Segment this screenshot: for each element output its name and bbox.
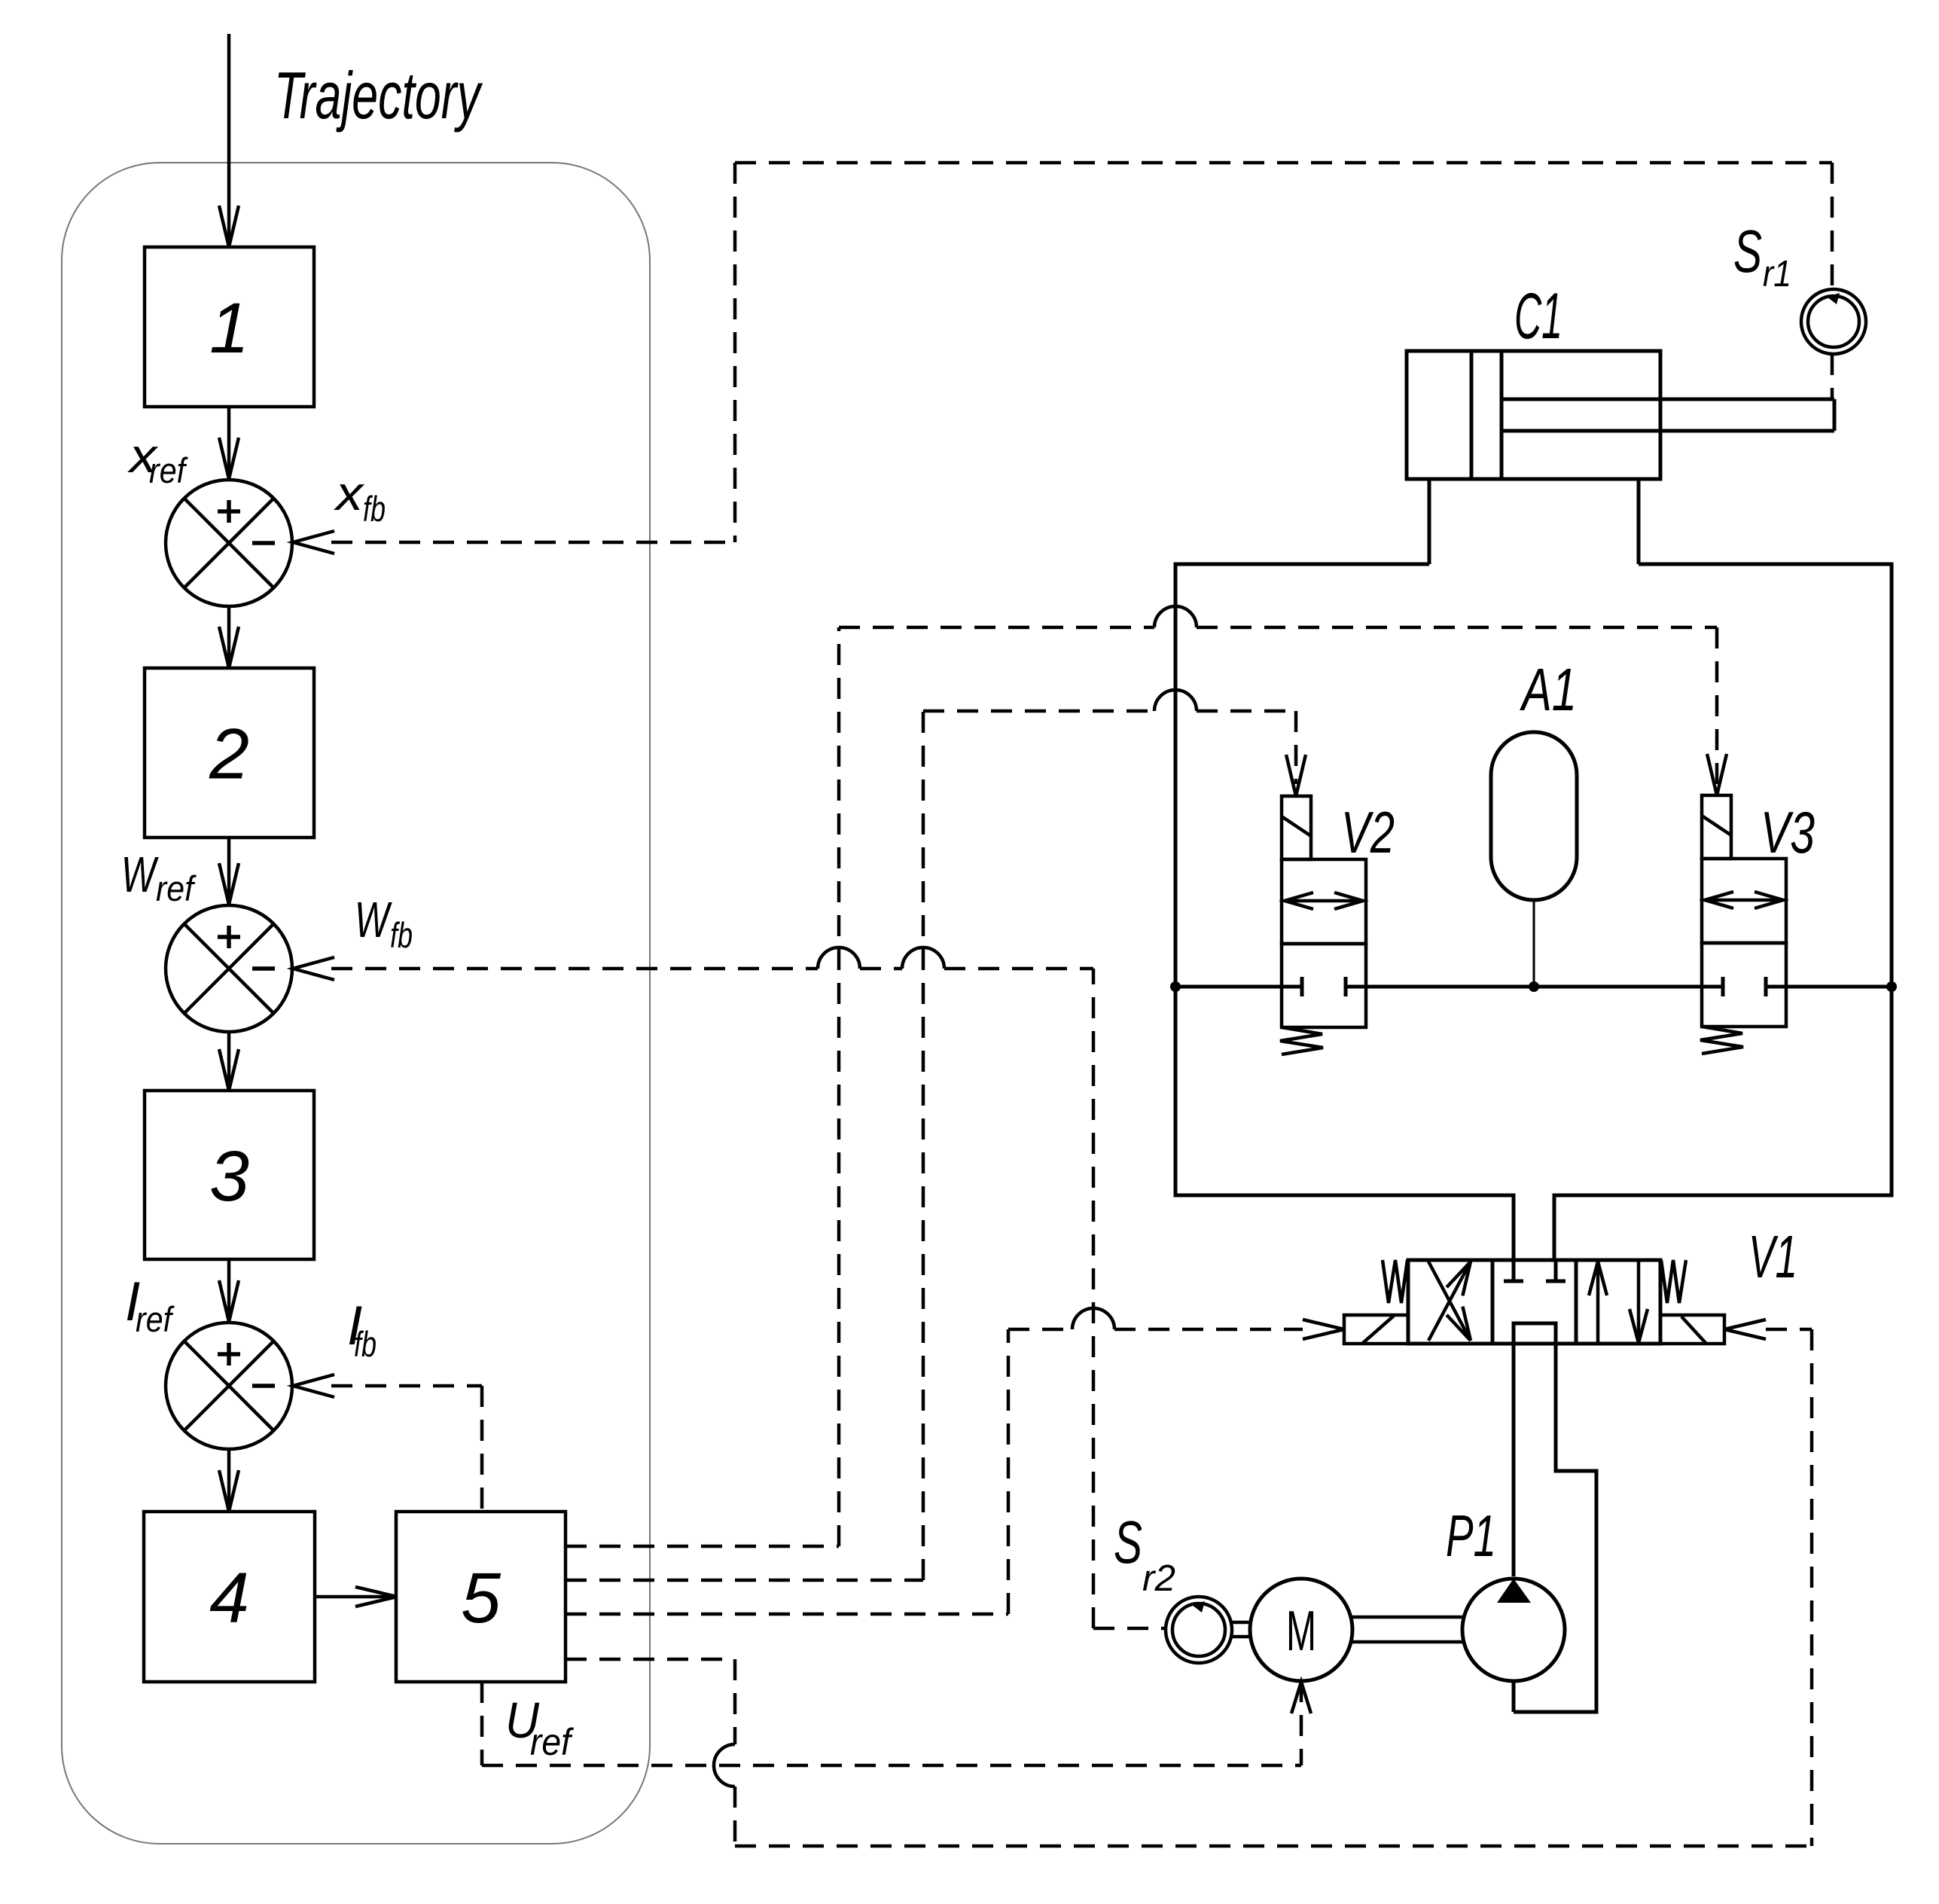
- svg-text:V1: V1: [1748, 1223, 1797, 1290]
- svg-text:S: S: [1114, 1509, 1142, 1576]
- svg-text:fb: fb: [390, 915, 413, 955]
- svg-text:2: 2: [209, 715, 249, 795]
- svg-text:ref: ref: [530, 1721, 575, 1763]
- svg-text:W: W: [355, 892, 392, 948]
- svg-text:M: M: [1286, 1599, 1316, 1662]
- svg-text:Trajectory: Trajectory: [274, 58, 483, 133]
- svg-text:C1: C1: [1514, 280, 1562, 352]
- svg-text:fb: fb: [363, 489, 386, 529]
- svg-text:S: S: [1733, 218, 1762, 285]
- svg-text:V3: V3: [1761, 799, 1815, 865]
- svg-text:ref: ref: [149, 450, 188, 490]
- svg-text:V2: V2: [1341, 799, 1395, 865]
- svg-text:P1: P1: [1446, 1503, 1496, 1569]
- svg-text:ref: ref: [136, 1299, 175, 1339]
- svg-text:W: W: [121, 847, 159, 903]
- svg-text:A1: A1: [1520, 656, 1577, 723]
- svg-text:5: 5: [461, 1558, 502, 1638]
- svg-text:r1: r1: [1763, 254, 1791, 294]
- svg-text:4: 4: [209, 1558, 249, 1638]
- svg-text:3: 3: [209, 1137, 249, 1216]
- svg-text:x: x: [334, 466, 365, 520]
- svg-text:ref: ref: [156, 868, 197, 908]
- svg-text:fb: fb: [354, 1324, 377, 1364]
- svg-text:1: 1: [209, 288, 249, 368]
- svg-text:r2: r2: [1142, 1558, 1175, 1599]
